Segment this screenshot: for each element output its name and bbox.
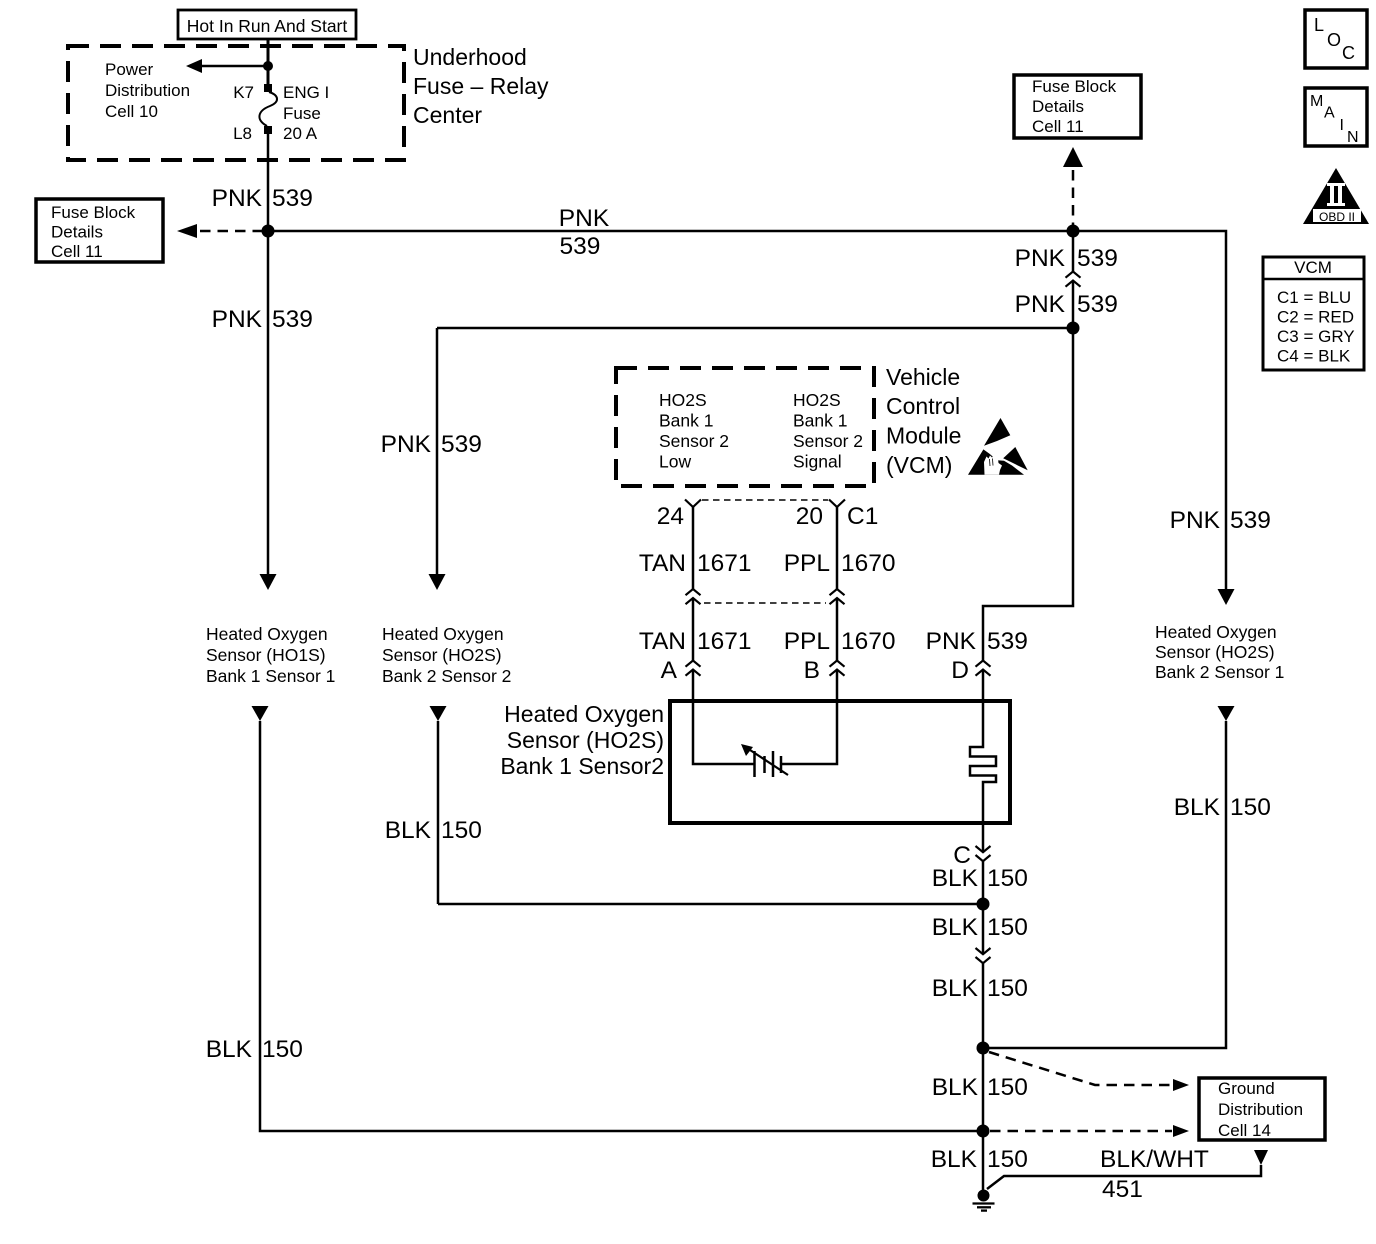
svg-text:Distribution: Distribution bbox=[1218, 1100, 1303, 1119]
inline connector chevrons down bbox=[976, 948, 991, 963]
svg-text:Ground: Ground bbox=[1218, 1079, 1275, 1098]
OBD II symbol bbox=[1303, 168, 1369, 224]
pin A chevrons bbox=[686, 661, 701, 676]
HO2S bank1 sensor2 box bbox=[670, 701, 1010, 823]
svg-text:Heated Oxygen: Heated Oxygen bbox=[206, 624, 328, 644]
label BLK/WHT 451 bbox=[1100, 1146, 1209, 1203]
pin C chevrons bbox=[976, 846, 991, 861]
svg-text:C3 = GRY: C3 = GRY bbox=[1277, 327, 1355, 346]
ground node bbox=[978, 1190, 990, 1202]
svg-text:VCM: VCM bbox=[1294, 258, 1332, 277]
svg-text:Bank 2 Sensor 1: Bank 2 Sensor 1 bbox=[1155, 662, 1284, 682]
svg-text:Bank 2 Sensor 2: Bank 2 Sensor 2 bbox=[382, 666, 511, 686]
svg-text:Sensor (HO2S): Sensor (HO2S) bbox=[382, 645, 502, 665]
junction node bbox=[977, 898, 990, 911]
junction node bbox=[977, 1042, 990, 1055]
wire from HO2S B2S1 right sensor down bbox=[1218, 706, 1235, 721]
svg-text:Sensor (HO2S): Sensor (HO2S) bbox=[1155, 642, 1275, 662]
svg-text:PNK: PNK bbox=[212, 185, 263, 212]
label PNK 539 at pin D bbox=[926, 628, 1028, 655]
main horizontal wire PNK 539 bbox=[268, 231, 1226, 589]
MAIN legend box bbox=[1305, 88, 1367, 146]
sensor cell wires inside box bbox=[693, 701, 754, 764]
pin B chevrons bbox=[830, 661, 845, 676]
svg-text:1671: 1671 bbox=[697, 628, 752, 655]
junction node bbox=[977, 1125, 990, 1138]
svg-text:M: M bbox=[1310, 93, 1323, 110]
dashed wire up to top Fuse Block Details with arrow bbox=[1072, 170, 1075, 226]
svg-text:TAN: TAN bbox=[639, 550, 686, 577]
svg-text:A: A bbox=[1324, 105, 1335, 122]
svg-text:PPL: PPL bbox=[784, 550, 830, 577]
wire TAN 1671 bbox=[692, 507, 695, 589]
svg-text:Bank 1 Sensor 1: Bank 1 Sensor 1 bbox=[206, 666, 335, 686]
svg-text:Underhood: Underhood bbox=[413, 44, 527, 70]
svg-text:C4 = BLK: C4 = BLK bbox=[1277, 347, 1351, 366]
svg-text:Details: Details bbox=[51, 223, 103, 242]
svg-text:C1 = BLU: C1 = BLU bbox=[1277, 288, 1351, 307]
svg-text:539: 539 bbox=[272, 306, 313, 333]
svg-text:Cell 14: Cell 14 bbox=[1218, 1121, 1271, 1140]
svg-text:Distribution: Distribution bbox=[105, 81, 190, 100]
Underhood Fuse - Relay Center label bbox=[413, 44, 549, 128]
svg-text:150: 150 bbox=[1230, 794, 1271, 821]
svg-text:Module: Module bbox=[886, 423, 961, 449]
svg-text:N: N bbox=[1347, 129, 1359, 146]
svg-text:C: C bbox=[1342, 43, 1355, 63]
svg-text:Bank 1: Bank 1 bbox=[659, 411, 713, 431]
svg-text:Cell 11: Cell 11 bbox=[1032, 117, 1084, 136]
Hot In Run And Start box bbox=[178, 10, 356, 39]
svg-text:20 A: 20 A bbox=[283, 124, 318, 143]
label PNK 539 bbox=[381, 431, 482, 458]
variable voltage cell plates bbox=[755, 751, 782, 777]
LOC legend box bbox=[1305, 10, 1367, 68]
label PNK 539 right drop bbox=[1170, 507, 1271, 534]
svg-text:BLK/WHT: BLK/WHT bbox=[1100, 1146, 1209, 1173]
wire PPL 1670 bbox=[836, 507, 839, 589]
svg-text:PNK: PNK bbox=[1015, 291, 1066, 318]
label PPL 1670 bbox=[784, 550, 896, 577]
svg-text:539: 539 bbox=[272, 185, 313, 212]
HO2S Bank1 Sensor2 Signal pin label bbox=[793, 390, 863, 472]
svg-text:20: 20 bbox=[796, 503, 823, 530]
Heated Oxygen Sensor (HO1S) Bank 1 Sensor 1 label bbox=[206, 624, 335, 686]
label PNK 539 bbox=[1015, 245, 1118, 272]
ESD symbol bbox=[968, 418, 1028, 475]
svg-text:BLK: BLK bbox=[932, 865, 979, 892]
svg-text:PNK: PNK bbox=[1170, 507, 1221, 534]
pin labels 24 20 C1 bbox=[657, 503, 879, 530]
label PPL 1670 lower bbox=[784, 628, 896, 655]
Heated Oxygen Sensor (HO2S) Bank 2 Sensor 1 label bbox=[1155, 622, 1284, 682]
svg-text:Sensor (HO2S): Sensor (HO2S) bbox=[507, 727, 664, 753]
label PNK 539 bbox=[1015, 291, 1118, 318]
svg-text:Sensor (HO1S): Sensor (HO1S) bbox=[206, 645, 326, 665]
VCM dashed box bbox=[616, 368, 874, 486]
label BLK 150 bbox=[385, 817, 482, 844]
svg-text:150: 150 bbox=[262, 1036, 303, 1063]
svg-text:Sensor 2: Sensor 2 bbox=[659, 431, 729, 451]
svg-text:150: 150 bbox=[987, 914, 1028, 941]
Heated Oxygen Sensor (HO2S) Bank 2 Sensor 2 label bbox=[382, 624, 511, 686]
dashed wire to Ground Distribution lower bbox=[990, 1130, 1172, 1133]
VCM connector legend table bbox=[1263, 257, 1364, 370]
svg-text:539: 539 bbox=[1230, 507, 1271, 534]
svg-text:Signal: Signal bbox=[793, 452, 842, 472]
svg-text:BLK: BLK bbox=[932, 1074, 979, 1101]
label BLK 150 bbox=[932, 975, 1028, 1002]
fuse labels bbox=[233, 83, 329, 143]
svg-text:BLK: BLK bbox=[932, 914, 979, 941]
svg-text:L: L bbox=[1314, 15, 1324, 35]
wire from Hot In Run box to fuse bbox=[267, 39, 270, 88]
BLK/WHT 451 wire from Ground Distribution bbox=[1254, 1150, 1268, 1165]
svg-text:Low: Low bbox=[659, 452, 691, 472]
Ground Distribution Cell 14 box bbox=[1199, 1078, 1325, 1140]
label BLK 150 below junction bbox=[932, 914, 1028, 941]
pin D chevrons bbox=[976, 661, 991, 676]
wire PNK down from top junction bbox=[1072, 231, 1075, 272]
connector C1 top dashed line bbox=[702, 499, 828, 501]
svg-text:150: 150 bbox=[987, 865, 1028, 892]
junction node mid right bbox=[1067, 322, 1080, 335]
svg-text:150: 150 bbox=[987, 975, 1028, 1002]
svg-text:Fuse Block: Fuse Block bbox=[1032, 77, 1117, 96]
horizontal wire to second sensor drop bbox=[437, 327, 1073, 330]
svg-text:Hot In Run And Start: Hot In Run And Start bbox=[187, 16, 348, 36]
horizontal wire from x437 drop to junction bbox=[438, 903, 983, 906]
connector C1 bottom dashed line bbox=[704, 602, 826, 604]
svg-text:BLK: BLK bbox=[385, 817, 432, 844]
svg-text:(VCM): (VCM) bbox=[886, 452, 952, 478]
svg-text:HO2S: HO2S bbox=[793, 390, 841, 410]
svg-text:TAN: TAN bbox=[639, 628, 686, 655]
svg-text:PNK: PNK bbox=[381, 431, 432, 458]
wire down bbox=[982, 904, 985, 954]
label BLK 150 bbox=[932, 1074, 1028, 1101]
heater element bbox=[970, 701, 996, 823]
svg-text:Details: Details bbox=[1032, 97, 1084, 116]
svg-text:Fuse: Fuse bbox=[283, 104, 321, 123]
svg-text:C2 = RED: C2 = RED bbox=[1277, 308, 1354, 327]
svg-text:Fuse Block: Fuse Block bbox=[51, 203, 136, 222]
label TAN 1671 bbox=[639, 550, 752, 577]
Power Distribution Cell 10 label bbox=[105, 60, 190, 121]
label BLK 150 right bbox=[1174, 794, 1271, 821]
svg-text:BLK: BLK bbox=[1174, 794, 1221, 821]
wire from VCM right down to pin D bbox=[983, 328, 1073, 661]
svg-text:24: 24 bbox=[657, 503, 684, 530]
svg-text:Fuse – Relay: Fuse – Relay bbox=[413, 73, 549, 99]
Fuse Block Details Cell 11 box (left) bbox=[36, 199, 163, 262]
Heated Oxygen Sensor (HO2S) Bank 1 Sensor2 label bbox=[500, 701, 664, 779]
wire arrow to Power Distribution bbox=[200, 65, 268, 68]
svg-text:PNK: PNK bbox=[559, 205, 610, 232]
svg-text:PPL: PPL bbox=[784, 628, 830, 655]
ground symbol bbox=[973, 1204, 995, 1211]
svg-text:539: 539 bbox=[441, 431, 482, 458]
pin letters A B D bbox=[661, 657, 969, 684]
underhood fuse-relay center dashed box bbox=[68, 46, 404, 160]
wire down bbox=[982, 1048, 985, 1131]
svg-text:HO2S: HO2S bbox=[659, 390, 707, 410]
svg-text:Cell 10: Cell 10 bbox=[105, 102, 158, 121]
label PNK 539 bbox=[212, 306, 313, 333]
svg-text:BLK: BLK bbox=[932, 975, 979, 1002]
label BLK 150 bbox=[932, 865, 1028, 892]
Fuse Block Details Cell 11 box (top) bbox=[1014, 75, 1141, 138]
svg-text:Bank 1 Sensor2: Bank 1 Sensor2 bbox=[500, 753, 664, 779]
wire PNK 539 from fuse down to main junction bbox=[267, 134, 270, 231]
svg-text:Heated Oxygen: Heated Oxygen bbox=[382, 624, 504, 644]
svg-text:D: D bbox=[951, 657, 969, 684]
svg-text:OBD II: OBD II bbox=[1319, 210, 1355, 224]
label TAN 1671 lower bbox=[639, 628, 752, 655]
wire BLK 150 below sensor bbox=[982, 823, 985, 852]
svg-text:Bank 1: Bank 1 bbox=[793, 411, 847, 431]
wire from HO1S B1S1 left sensor down bbox=[252, 706, 269, 721]
svg-text:Heated Oxygen: Heated Oxygen bbox=[1155, 622, 1277, 642]
Vehicle Control Module (VCM) label bbox=[886, 364, 961, 478]
label BLK 150 bottom bbox=[931, 1146, 1028, 1173]
junction node left bbox=[262, 225, 275, 238]
svg-text:539: 539 bbox=[987, 628, 1028, 655]
inline connector chevrons PPL bbox=[830, 589, 845, 604]
svg-text:Power: Power bbox=[105, 60, 154, 79]
svg-text:PNK: PNK bbox=[926, 628, 977, 655]
svg-text:Center: Center bbox=[413, 102, 482, 128]
svg-text:BLK: BLK bbox=[931, 1146, 978, 1173]
label BLK 150 left bbox=[206, 1036, 303, 1063]
svg-text:O: O bbox=[1327, 30, 1341, 50]
svg-text:Cell 11: Cell 11 bbox=[51, 242, 103, 261]
svg-text:BLK: BLK bbox=[206, 1036, 253, 1063]
svg-text:150: 150 bbox=[987, 1146, 1028, 1173]
svg-text:451: 451 bbox=[1102, 1176, 1143, 1203]
VCM pin 20 cup bbox=[829, 500, 845, 508]
HO2S Bank1 Sensor2 Low pin label bbox=[659, 390, 729, 472]
inline connector chevrons TAN bbox=[686, 589, 701, 604]
wire down to HO2S bank2 sensor2 bbox=[436, 328, 439, 575]
svg-text:ENG I: ENG I bbox=[283, 83, 329, 102]
svg-text:I: I bbox=[1340, 117, 1344, 134]
svg-text:150: 150 bbox=[987, 1074, 1028, 1101]
svg-text:Control: Control bbox=[886, 393, 960, 419]
svg-text:Heated Oxygen: Heated Oxygen bbox=[504, 701, 664, 727]
svg-text:1671: 1671 bbox=[697, 550, 752, 577]
svg-text:PNK: PNK bbox=[1015, 245, 1066, 272]
svg-text:1670: 1670 bbox=[841, 550, 896, 577]
node junction at power feed bbox=[263, 61, 273, 71]
svg-text:Sensor 2: Sensor 2 bbox=[793, 431, 863, 451]
svg-text:539: 539 bbox=[560, 233, 601, 260]
wire from HO2S B2S2 sensor down bbox=[430, 706, 447, 721]
VCM pin 24 cup bbox=[685, 500, 701, 508]
wire down to HO1S bank1 sensor1 bbox=[267, 231, 270, 575]
dashed wire to Ground Distribution upper bbox=[989, 1052, 1172, 1085]
junction node right bbox=[1067, 225, 1080, 238]
svg-text:1670: 1670 bbox=[841, 628, 896, 655]
svg-text:Vehicle: Vehicle bbox=[886, 364, 960, 390]
label PNK 539 bbox=[212, 185, 313, 212]
label PNK 539 on horizontal wire bbox=[559, 205, 610, 260]
svg-text:539: 539 bbox=[1077, 245, 1118, 272]
svg-text:A: A bbox=[661, 657, 678, 684]
svg-text:150: 150 bbox=[441, 817, 482, 844]
wire down to ground bbox=[982, 1131, 985, 1195]
fuse ENG I 20A bbox=[259, 84, 277, 134]
svg-text:PNK: PNK bbox=[212, 306, 263, 333]
variable arrow across cell bbox=[747, 748, 788, 775]
svg-text:539: 539 bbox=[1077, 291, 1118, 318]
dashed wire to left Fuse Block Details with arrow bbox=[200, 230, 262, 233]
svg-text:K7: K7 bbox=[233, 83, 254, 102]
svg-text:C1: C1 bbox=[847, 503, 878, 530]
svg-text:B: B bbox=[804, 657, 820, 684]
svg-text:L8: L8 bbox=[233, 124, 252, 143]
inline connector chevrons bbox=[1066, 272, 1081, 287]
